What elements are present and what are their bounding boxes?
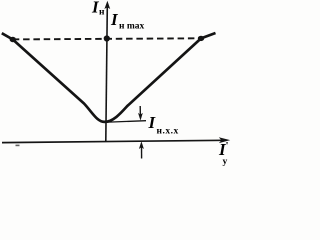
- node dot on axis (I_н max point): [104, 35, 110, 41]
- node dot left (saturation point): [10, 37, 16, 42]
- label I_у' (horizontal axis): [218, 140, 229, 167]
- label I_н (vertical axis): [91, 0, 105, 18]
- vertical axis (I_н axis) with up arrow: [104, 1, 110, 141]
- horizontal axis (I_у' axis) with right arrow: [2, 137, 230, 143]
- svg-text:': ': [226, 140, 229, 152]
- svg-text:н: н: [99, 8, 105, 18]
- dashed line at I_н max level: [13, 38, 201, 39]
- label I_н.х.х: [148, 113, 179, 137]
- level line at curve minimum (I_н.х.х level): [102, 121, 146, 123]
- svg-text:н.х.х: н.х.х: [157, 127, 179, 137]
- svg-text:н max: н max: [119, 22, 145, 32]
- dimension arrow lower (pointing up to axis): [139, 141, 144, 158]
- characteristic curve: [2, 33, 216, 122]
- dimension arrow upper (pointing down to level line): [138, 106, 143, 121]
- svg-text:у: у: [223, 157, 228, 167]
- scan speck near axis: [16, 145, 20, 147]
- node dot right (saturation point): [198, 36, 204, 41]
- label I_н max: [110, 10, 145, 32]
